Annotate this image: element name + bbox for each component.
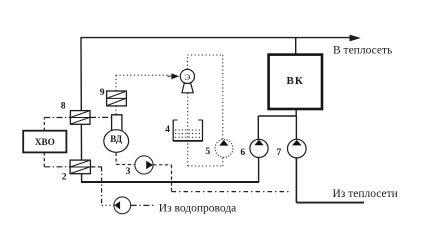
svg-text:3: 3 [126,166,131,177]
svg-text:ХВО: ХВО [35,137,55,147]
svg-text:4: 4 [165,124,170,135]
svg-text:5: 5 [205,146,210,157]
svg-text:ВД: ВД [110,134,123,144]
svg-text:6: 6 [240,147,245,158]
svg-text:ВК: ВК [287,75,304,87]
svg-text:7: 7 [277,147,282,158]
svg-text:Из теплосети: Из теплосети [333,188,398,200]
svg-text:Э: Э [185,72,191,82]
svg-text:В теплосеть: В теплосеть [333,45,392,57]
svg-text:9: 9 [100,87,105,98]
svg-text:Из водопровода: Из водопровода [159,202,236,214]
svg-text:8: 8 [61,101,66,112]
svg-text:2: 2 [62,171,67,182]
